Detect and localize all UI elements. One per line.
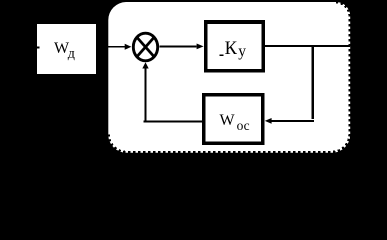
block Wд [37, 24, 96, 74]
wire: branch down from output [312, 46, 314, 119]
wire: branch into Wос (arrow left) [265, 118, 314, 124]
panel dashed right/bottom edge [108, 2, 350, 152]
label _Ку [220, 39, 247, 60]
label Wос [220, 112, 250, 133]
block Ку [206, 22, 264, 71]
wire: Wос output feedback left [143, 120, 203, 122]
svg-text:К: К [225, 39, 238, 59]
svg-text:ос: ос [237, 118, 250, 133]
label Wд [54, 40, 75, 61]
svg-text:д: д [68, 46, 75, 61]
wire: feedback up into summing junction [142, 62, 148, 122]
summing junction (circle with X) [133, 33, 157, 61]
wire: panel edge to summing junction [108, 44, 131, 50]
wire: Ку output to panel edge [265, 45, 350, 47]
panel (white rounded rectangle) [108, 2, 350, 153]
svg-text:W: W [220, 112, 236, 129]
svg-text:у: у [238, 43, 246, 60]
block Wос [204, 95, 263, 143]
input stub into Wд [37, 46, 40, 48]
wire: summing junction to Ку block [160, 44, 204, 50]
